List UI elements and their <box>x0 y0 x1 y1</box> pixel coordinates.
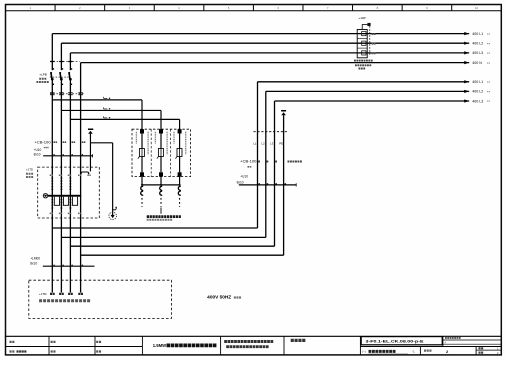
svg-text:400 L2: 400 L2 <box>472 42 483 46</box>
svg-text:400 N: 400 N <box>472 61 482 65</box>
svg-text:+CB-100: +CB-100 <box>240 159 256 163</box>
svg-text:400V 50HZ: 400V 50HZ <box>207 295 231 300</box>
svg-text:L2: L2 <box>261 141 265 145</box>
svg-text:+U10: +U10 <box>240 175 248 179</box>
svg-text:××: ×× <box>487 80 491 84</box>
svg-text:400 L2: 400 L2 <box>472 90 483 94</box>
svg-text:400 L3: 400 L3 <box>472 51 483 55</box>
svg-text:××: ×× <box>487 90 491 94</box>
svg-text:400 L1: 400 L1 <box>472 32 483 36</box>
svg-text:+CB-100: +CB-100 <box>34 141 50 145</box>
svg-text:(--): (--) <box>362 350 366 354</box>
svg-text:××: ×× <box>487 61 491 65</box>
svg-text:+1TD: +1TD <box>26 168 33 172</box>
svg-text:××: ×× <box>487 99 491 103</box>
svg-text:L3: L3 <box>270 141 274 145</box>
svg-text:+U10: +U10 <box>34 148 42 152</box>
svg-text:××: ×× <box>487 32 491 36</box>
svg-text:××: ×× <box>487 51 491 55</box>
svg-text:L1: L1 <box>253 141 257 145</box>
svg-text:-1: -1 <box>412 350 415 354</box>
svg-text:××: ×× <box>487 41 491 45</box>
svg-text:8x10: 8x10 <box>30 261 37 265</box>
svg-text:3-F0.1-EL.CK.08.00-p-E: 3-F0.1-EL.CK.08.00-p-E <box>366 338 424 343</box>
svg-text:8x10: 8x10 <box>237 180 244 184</box>
svg-text:+10P: +10P <box>358 16 365 20</box>
svg-text:400 L3: 400 L3 <box>472 99 483 103</box>
svg-text:1.5MW: 1.5MW <box>153 343 166 348</box>
svg-text:+LPB: +LPB <box>39 72 47 76</box>
svg-text:400 L1: 400 L1 <box>472 80 483 84</box>
svg-text:8x10: 8x10 <box>34 153 41 157</box>
svg-text:+1TM: +1TM <box>39 292 47 296</box>
svg-text:PE: PE <box>279 141 283 145</box>
svg-text:+LM00: +LM00 <box>30 256 40 260</box>
